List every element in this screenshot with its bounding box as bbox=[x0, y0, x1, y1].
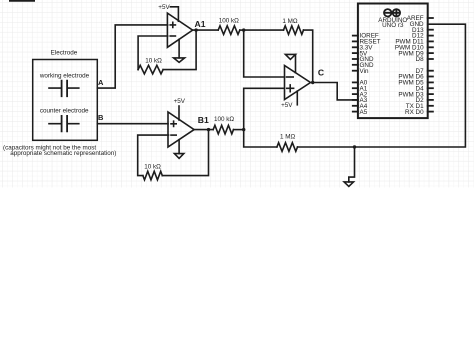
cut-off wire top-left bbox=[10, 0, 34, 2]
wire N2 down to ground net bbox=[244, 130, 277, 147]
op-amp B1 bbox=[168, 112, 194, 147]
capacitor counter electrode bbox=[49, 116, 79, 131]
feedback down to C output bbox=[304, 30, 313, 82]
arduino pin stubs right bbox=[428, 18, 433, 112]
B1 feedback wire with 10 k bbox=[162, 130, 208, 176]
A1 feedback wire with 10 k bbox=[163, 30, 196, 70]
ground B1 bbox=[174, 140, 183, 159]
svg-text:UNO r3: UNO r3 bbox=[382, 22, 404, 29]
junction dot B1 out bbox=[207, 128, 210, 131]
op-amp C bbox=[285, 66, 311, 100]
ground A1 bbox=[174, 39, 185, 62]
svg-text:100 kΩ: 100 kΩ bbox=[219, 17, 239, 24]
wire to node N2 bbox=[234, 129, 244, 131]
wire to node N1 bbox=[240, 29, 244, 31]
op-amp A1 bbox=[167, 13, 192, 47]
resistor 10 kOhm (B1) bbox=[143, 171, 162, 180]
wire node A to op-amp A1 + input bbox=[97, 25, 167, 88]
svg-text:A: A bbox=[98, 78, 104, 87]
junction dot A1 out bbox=[194, 28, 197, 31]
wire N2 up to C + input bbox=[244, 88, 285, 129]
svg-text:Electrode: Electrode bbox=[51, 50, 78, 57]
svg-text:appropriate schematic represen: appropriate schematic representation) bbox=[10, 150, 116, 157]
resistor 100 kOhm (B) bbox=[213, 125, 233, 134]
+5V wire B1 bbox=[178, 106, 180, 120]
wire node B to op-amp B1 + input bbox=[97, 123, 168, 125]
svg-text:10 kΩ: 10 kΩ bbox=[144, 163, 161, 170]
wire N1 to 1 M feedback bbox=[244, 29, 284, 31]
pin labels right bbox=[395, 15, 424, 116]
svg-text:C: C bbox=[318, 68, 324, 78]
wire B1 out bbox=[194, 129, 213, 131]
junction dot N2 bbox=[242, 128, 245, 131]
svg-text:RX D0: RX D0 bbox=[405, 109, 424, 116]
svg-text:counter electrode: counter electrode bbox=[40, 108, 89, 115]
svg-text:B1: B1 bbox=[198, 115, 209, 125]
electrode box bbox=[33, 60, 98, 141]
pin labels left bbox=[360, 33, 381, 116]
wire A1 out bbox=[193, 29, 219, 31]
svg-text:10 kΩ: 10 kΩ bbox=[145, 58, 162, 65]
+5V wire C bbox=[296, 91, 298, 105]
wire C output to Arduino A3 bbox=[313, 83, 358, 100]
svg-text:working electrode: working electrode bbox=[39, 72, 90, 79]
ground symbol bbox=[344, 147, 354, 186]
wire N1 down to C - input bbox=[244, 30, 285, 77]
resistor 10 kOhm (A1) bbox=[138, 65, 163, 74]
resistor 1 MOhm (to ground net) bbox=[277, 143, 298, 152]
svg-text:+5V: +5V bbox=[174, 98, 186, 105]
resistor 100 kOhm (A) bbox=[218, 26, 240, 35]
svg-text:+5V: +5V bbox=[281, 102, 293, 109]
+5V wire A1 bbox=[170, 7, 178, 21]
svg-text:D8: D8 bbox=[416, 56, 425, 63]
svg-text:1 MΩ: 1 MΩ bbox=[280, 133, 295, 140]
junction dot C out bbox=[311, 81, 314, 84]
Arduino logo bbox=[384, 9, 400, 16]
junction dot ground net bbox=[353, 145, 356, 148]
inverted ground C bbox=[285, 54, 295, 72]
svg-text:A5: A5 bbox=[360, 109, 368, 116]
wire ground net to Arduino GND bbox=[298, 24, 466, 147]
capacitor working electrode bbox=[49, 81, 79, 97]
svg-text:1 MΩ: 1 MΩ bbox=[282, 18, 297, 25]
svg-text:B: B bbox=[98, 113, 104, 122]
svg-text:100 kΩ: 100 kΩ bbox=[214, 116, 234, 123]
Arduino UNO box bbox=[358, 4, 428, 119]
arduino pin stubs left bbox=[353, 36, 358, 112]
svg-text:A1: A1 bbox=[195, 19, 206, 29]
resistor 1 MOhm (feedback) bbox=[284, 26, 304, 35]
svg-text:+5V: +5V bbox=[158, 4, 170, 11]
svg-text:Vin: Vin bbox=[360, 68, 369, 75]
junction dot N1 bbox=[242, 28, 245, 31]
